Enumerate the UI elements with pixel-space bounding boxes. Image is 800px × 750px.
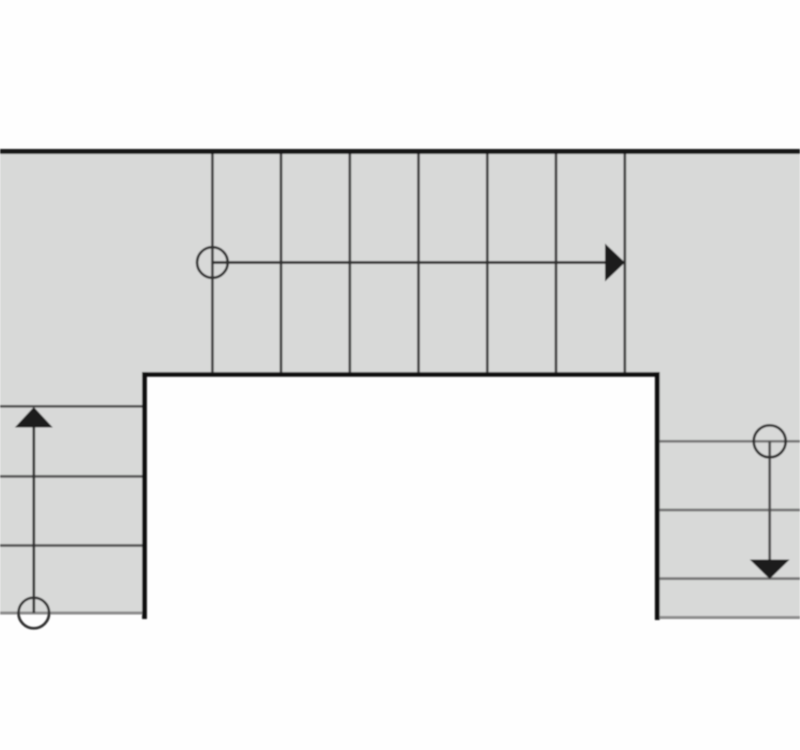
- stair landing top band (gray fill): [0, 151, 800, 374]
- right walk-line start circle: [754, 425, 786, 457]
- left flight bottom tread line: [0, 612, 142, 615]
- top flight tread line 2: [280, 154, 283, 372]
- top flight tread line 3: [348, 154, 351, 372]
- stairwell opening left wall: [142, 372, 147, 619]
- top flight tread line 6: [555, 154, 558, 372]
- right flight tread line 2: [660, 509, 800, 512]
- top walk-line start circle: [197, 247, 228, 278]
- left stair flight (gray fill): [0, 374, 144, 613]
- top flight tread line 1: [211, 154, 214, 372]
- top flight tread line 5: [486, 154, 489, 372]
- right flight tread line 1: [660, 440, 800, 443]
- right stair flight (gray fill): [657, 374, 800, 618]
- top flight tread line 4: [417, 154, 420, 372]
- left flight tread line 2: [0, 475, 142, 478]
- top walk-line arrowhead: [605, 244, 625, 282]
- left flight tread line 3: [0, 544, 142, 547]
- left walk-line shaft: [32, 426, 35, 613]
- stairwell opening top wall: [142, 372, 660, 377]
- top walk-line shaft: [212, 261, 606, 264]
- right flight bottom edge line: [660, 616, 800, 619]
- stairwell opening right wall: [655, 372, 660, 620]
- right walk-line shaft: [768, 441, 771, 560]
- left flight tread line 1: [0, 405, 142, 408]
- top wall border: [0, 149, 800, 154]
- left walk-line arrowhead: [15, 407, 53, 428]
- left walk-line start circle: [19, 598, 50, 629]
- top flight tread line 7: [623, 154, 626, 372]
- right walk-line arrowhead: [750, 560, 790, 580]
- right flight tread line 3: [660, 577, 800, 580]
